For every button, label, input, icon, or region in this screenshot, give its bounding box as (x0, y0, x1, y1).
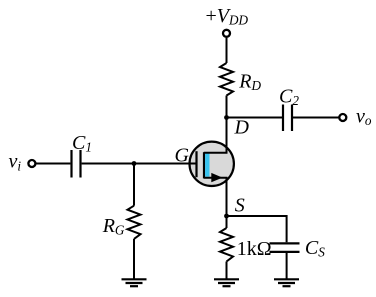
svg-text:D: D (234, 117, 250, 139)
transistor gate bar (195, 151, 197, 177)
wire node G down to RG (133, 164, 135, 206)
resistor 1k (220, 228, 233, 262)
wire VDD to RD (226, 38, 228, 63)
svg-text:G: G (175, 144, 190, 166)
wire CS to ground (286, 253, 288, 279)
capacitor C2 (282, 105, 284, 132)
wire node D to C2 (227, 117, 283, 119)
wire C2 to vo (293, 117, 339, 119)
terminal vo (339, 114, 346, 121)
transistor drain lead (204, 96, 227, 153)
transistor channel shading (cyan) (205, 153, 209, 177)
wire node S to CS (227, 216, 287, 242)
wire RG to ground (133, 239, 135, 279)
transistor arrow (211, 173, 222, 182)
wire node S to 1k resistor (226, 216, 228, 228)
ground (1k) (214, 279, 239, 286)
transistor source lead (204, 178, 227, 216)
node G junction dot (132, 161, 137, 166)
node D junction dot (224, 115, 229, 120)
svg-text:1kΩ: 1kΩ (237, 238, 272, 260)
capacitor C1 (70, 150, 72, 178)
wire RD to node D (226, 96, 228, 118)
wire 1k to ground (226, 262, 228, 280)
svg-text:S: S (235, 194, 245, 216)
ground (RG) (122, 279, 147, 286)
resistor RD (220, 63, 233, 96)
terminal vi (28, 160, 35, 167)
wire C1 to gate (node G) (82, 163, 197, 165)
terminal +VDD (223, 30, 230, 37)
capacitor CS (270, 242, 300, 244)
transistor channel bar (203, 152, 205, 178)
node S junction dot (224, 214, 229, 219)
resistor RG (128, 206, 141, 239)
transistor Q1 body (190, 142, 234, 186)
wire vi to C1 (36, 163, 71, 165)
ground (CS) (274, 279, 299, 286)
